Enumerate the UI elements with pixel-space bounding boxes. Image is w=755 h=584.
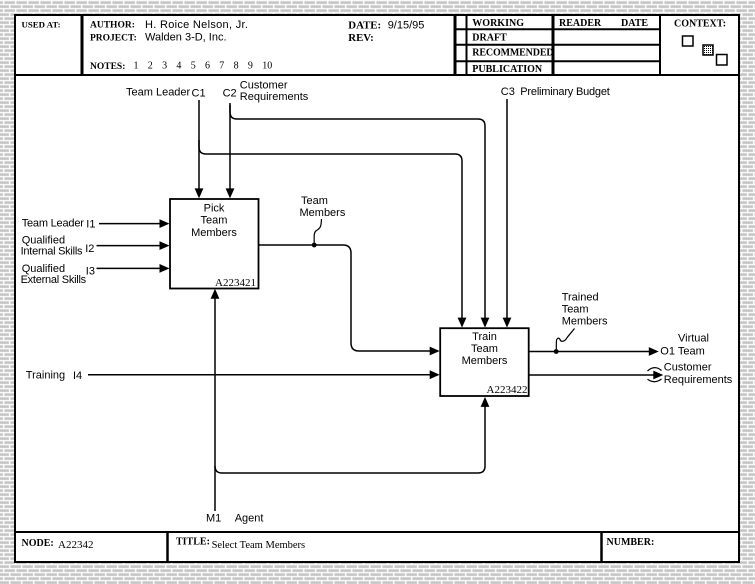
svg-text:Train: Train bbox=[472, 331, 497, 343]
svg-text:RECOMMENDED: RECOMMENDED bbox=[472, 48, 553, 59]
svg-text:Team: Team bbox=[301, 195, 328, 207]
svg-text:Training: Training bbox=[26, 369, 65, 381]
svg-text:2: 2 bbox=[148, 61, 153, 72]
svg-text:A223421: A223421 bbox=[215, 277, 256, 289]
svg-text:Team: Team bbox=[562, 304, 589, 316]
svg-text:REV:: REV: bbox=[348, 32, 373, 44]
svg-text:PROJECT:: PROJECT: bbox=[90, 33, 137, 43]
svg-text:4: 4 bbox=[176, 61, 181, 72]
svg-text:READER: READER bbox=[559, 18, 602, 29]
svg-text:A22342: A22342 bbox=[58, 539, 93, 551]
svg-text:Qualified: Qualified bbox=[22, 263, 65, 275]
svg-text:External Skills: External Skills bbox=[21, 274, 87, 286]
svg-text:8: 8 bbox=[234, 61, 239, 72]
svg-text:Virtual: Virtual bbox=[678, 332, 709, 344]
svg-text:Customer: Customer bbox=[664, 362, 712, 374]
svg-text:Select Team Members: Select Team Members bbox=[212, 540, 306, 551]
svg-text:Members: Members bbox=[462, 355, 508, 367]
svg-text:O1 Team: O1 Team bbox=[660, 346, 704, 358]
svg-text:I3: I3 bbox=[86, 266, 95, 278]
svg-text:3: 3 bbox=[162, 61, 167, 72]
svg-text:AUTHOR:: AUTHOR: bbox=[90, 21, 135, 31]
svg-text:Trained: Trained bbox=[562, 292, 599, 304]
svg-text:Customer: Customer bbox=[240, 80, 288, 92]
svg-text:C3: C3 bbox=[501, 86, 515, 98]
svg-text:Walden 3-D, Inc.: Walden 3-D, Inc. bbox=[145, 32, 227, 44]
svg-text:Members: Members bbox=[562, 315, 608, 327]
svg-text:DATE: DATE bbox=[621, 18, 648, 29]
svg-text:NOTES:: NOTES: bbox=[90, 62, 125, 72]
svg-text:Team Leader: Team Leader bbox=[126, 86, 191, 98]
svg-text:WORKING: WORKING bbox=[472, 18, 524, 29]
svg-text:A223422: A223422 bbox=[487, 384, 528, 396]
svg-text:C1: C1 bbox=[192, 87, 206, 99]
svg-text:Members: Members bbox=[300, 207, 346, 219]
svg-text:10: 10 bbox=[262, 61, 272, 72]
svg-text:Preliminary Budget: Preliminary Budget bbox=[520, 86, 609, 98]
svg-text:H. Roice Nelson, Jr.: H. Roice Nelson, Jr. bbox=[145, 19, 248, 31]
svg-text:I1: I1 bbox=[86, 219, 95, 231]
svg-text:TITLE:: TITLE: bbox=[176, 536, 210, 547]
svg-text:Requirements: Requirements bbox=[240, 91, 309, 103]
svg-text:Team Leader: Team Leader bbox=[22, 218, 85, 230]
svg-text:Internal Skills: Internal Skills bbox=[21, 246, 83, 258]
svg-text:USED AT:: USED AT: bbox=[22, 20, 61, 30]
svg-text:DATE:: DATE: bbox=[348, 19, 381, 31]
svg-text:Agent: Agent bbox=[235, 513, 264, 525]
svg-text:Requirements: Requirements bbox=[664, 374, 733, 386]
svg-text:5: 5 bbox=[191, 61, 196, 72]
svg-text:I4: I4 bbox=[73, 370, 82, 382]
svg-text:Team: Team bbox=[471, 343, 498, 355]
svg-text:NODE:: NODE: bbox=[22, 538, 54, 549]
svg-text:NUMBER:: NUMBER: bbox=[607, 537, 655, 548]
svg-text:1: 1 bbox=[134, 61, 139, 72]
svg-text:CONTEXT:: CONTEXT: bbox=[674, 18, 726, 29]
svg-text:C2: C2 bbox=[223, 87, 237, 99]
svg-text:6: 6 bbox=[205, 61, 210, 72]
svg-text:Members: Members bbox=[191, 227, 237, 239]
svg-text:9/15/95: 9/15/95 bbox=[388, 19, 425, 31]
svg-text:9: 9 bbox=[248, 61, 253, 72]
svg-text:PUBLICATION: PUBLICATION bbox=[472, 64, 543, 75]
svg-text:Team: Team bbox=[201, 215, 228, 227]
svg-text:I2: I2 bbox=[85, 243, 94, 255]
svg-text:DRAFT: DRAFT bbox=[472, 33, 507, 44]
svg-text:M1: M1 bbox=[206, 513, 221, 525]
svg-text:Pick: Pick bbox=[204, 203, 225, 215]
svg-text:7: 7 bbox=[219, 61, 224, 72]
